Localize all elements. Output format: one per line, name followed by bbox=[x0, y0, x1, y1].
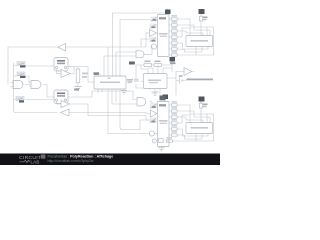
label U2 top bbox=[159, 17, 166, 19]
wire inverter U9 to DFF bbox=[67, 113, 151, 114]
wire IC2 left pin1 from gate bbox=[157, 105, 158, 107]
label R1 value bbox=[82, 73, 88, 75]
AND gate G1 bbox=[10, 81, 23, 89]
vcc flag F1 bbox=[165, 9, 171, 15]
inverter T7 facing left on top wire bbox=[58, 44, 66, 52]
svg-text:LAB: LAB bbox=[31, 160, 40, 165]
wire 555 bottom pins bbox=[150, 89, 160, 96]
decoder IC U2 bbox=[158, 15, 170, 57]
wire vcc V2 down to display D2 bbox=[190, 102, 201, 123]
wire counter top pins bbox=[104, 56, 136, 76]
resistor R3 vertical bbox=[199, 103, 202, 108]
buffer T1 bbox=[150, 30, 157, 37]
dff S8 bbox=[150, 118, 158, 124]
timer IC U4 bbox=[144, 74, 168, 89]
buffer T3 bbox=[184, 68, 192, 76]
wire 555 left cap bbox=[136, 65, 143, 88]
vcc flag F4 bbox=[199, 97, 205, 104]
clock bubble B1 bbox=[151, 44, 156, 49]
wire IC2 gnd bbox=[161, 147, 163, 148]
inverter T6 facing left bbox=[61, 109, 70, 116]
wire buffer T5 out bbox=[70, 104, 151, 120]
wire 555 top pins bbox=[141, 65, 172, 74]
wire resistor R1 top bbox=[77, 67, 79, 87]
capacitor C2 bbox=[180, 78, 183, 84]
wire left rail down bbox=[14, 63, 58, 113]
wire switch S3 output bbox=[26, 99, 55, 101]
label VCC left bbox=[129, 62, 135, 65]
vcc flag F5 bbox=[170, 57, 176, 64]
label R2 bbox=[203, 17, 208, 19]
clock bubble B2 bbox=[149, 131, 154, 136]
wire second top rail bbox=[120, 20, 151, 48]
text U2 bbox=[159, 33, 168, 35]
vcc flag F3 bbox=[163, 95, 169, 100]
dff S5 bbox=[150, 24, 158, 29]
label R3 bbox=[203, 104, 208, 106]
resistor column RC2 bbox=[167, 104, 178, 142]
labels RC1 bbox=[172, 15, 178, 52]
wire AND G4 output bbox=[150, 102, 152, 104]
display D2 bbox=[186, 123, 213, 134]
node switch S1 output bbox=[26, 65, 54, 67]
wire IC1 vcc pin bbox=[166, 11, 168, 15]
wire top rail to flag bbox=[113, 13, 167, 47]
footer bar bbox=[0, 154, 220, 166]
wire buffer T4 out bbox=[70, 67, 74, 74]
wire counter bottom pins bbox=[96, 73, 102, 93]
label C1 bbox=[127, 79, 133, 81]
text U3 bbox=[159, 120, 168, 122]
wire 555 right to buffer T3 bbox=[167, 72, 186, 96]
resistor R5 horizontal bbox=[154, 64, 162, 67]
label net name bbox=[187, 79, 214, 81]
buffer T5 bbox=[61, 101, 70, 108]
clock bubble B3 bbox=[152, 139, 156, 143]
buffer T2 bbox=[151, 110, 158, 117]
dff S4 at IC1 pin bbox=[151, 17, 158, 22]
ground gnd5 under IC2 bbox=[159, 148, 165, 151]
pushbutton PB2 bbox=[54, 90, 68, 104]
wire T3 output bbox=[192, 71, 195, 73]
wire PB1 to counter bbox=[68, 67, 94, 83]
resistor R4 horizontal bbox=[144, 64, 152, 67]
ground gnd2 bbox=[121, 91, 127, 95]
text D2 bbox=[191, 127, 209, 129]
AND gate G2 bbox=[29, 81, 41, 89]
wire top vcc rail right of IC1 bbox=[169, 18, 171, 20]
AND gate G3 bbox=[136, 51, 144, 58]
capacitor C1 bbox=[134, 79, 139, 81]
ground gnd3 under 555 bbox=[152, 92, 159, 96]
resistor R1 bbox=[76, 69, 80, 83]
display D1 bbox=[186, 36, 213, 47]
text D1 bbox=[191, 40, 209, 42]
labels RC2 bbox=[167, 101, 178, 138]
decoder IC U3 bbox=[158, 102, 170, 147]
counter IC U1 bbox=[94, 76, 126, 89]
svg-text:http://circuitlab.com/c/3phy2w: http://circuitlab.com/c/3phy2w bbox=[48, 159, 94, 163]
vcc flag F2 bbox=[199, 9, 205, 15]
resistor column IC2 right wires bbox=[169, 105, 214, 123]
AND gate G4 bbox=[137, 98, 146, 106]
text counter bbox=[100, 82, 120, 84]
wire switch S2 output bbox=[26, 76, 31, 82]
wire vcc V1 down to display D1 bbox=[190, 15, 201, 36]
wire counter gnd stub bbox=[123, 89, 125, 91]
text U4 bbox=[148, 80, 161, 82]
resistor column IC1 right wires bbox=[169, 19, 214, 36]
label PB2 bbox=[74, 89, 79, 91]
resistor column RC1 (7 resistors) bbox=[171, 18, 177, 56]
buffer T4 bbox=[61, 70, 70, 78]
wire 555 top rail bbox=[136, 62, 172, 72]
pushbutton PB1 bbox=[54, 58, 68, 72]
switch S3 bbox=[14, 96, 25, 103]
switch S2 bbox=[14, 72, 26, 79]
wire IC2 vcc pin bbox=[164, 99, 166, 102]
wire PB2 right bbox=[68, 91, 137, 100]
switch S1 bbox=[14, 61, 26, 68]
wire gate chain bbox=[25, 85, 54, 98]
label U1 bbox=[94, 72, 100, 75]
wire AND G3 output to clock bubble bbox=[144, 47, 158, 55]
ground gnd1 bbox=[75, 87, 82, 91]
label U3 top bbox=[159, 104, 166, 106]
label gnd blob bbox=[160, 96, 166, 101]
wire long inverted feedback top bbox=[8, 32, 149, 84]
dff S7 bbox=[150, 103, 157, 109]
dff S6 bbox=[149, 37, 157, 42]
resistor R2 vertical bbox=[199, 16, 202, 21]
